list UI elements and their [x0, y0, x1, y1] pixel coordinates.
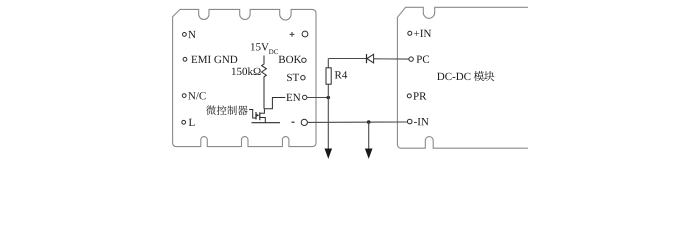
arrow down (R4 branch) [325, 149, 333, 159]
label 15VDC supply [251, 43, 278, 54]
wire R4 vertical branch [327, 59, 329, 149]
wire EN to R4 branch [307, 97, 328, 99]
resistor R4 [326, 68, 347, 84]
pin -IN [407, 118, 428, 125]
transistor Q1 N-MOSFET [256, 109, 265, 123]
junction dot on minus rail [367, 120, 371, 124]
pin N [183, 31, 196, 38]
wire gate lead from microcontroller [249, 110, 256, 119]
pin ST [287, 74, 305, 81]
pin EMI GND [183, 56, 237, 63]
junction dot at EN/R4 [327, 96, 331, 100]
pin +IN [408, 30, 431, 37]
pin + (output plus) [290, 31, 308, 37]
pin L [182, 119, 195, 126]
resistor 150kΩ (zigzag) [232, 56, 266, 109]
pin N/C [182, 92, 205, 99]
diode D1 (cathode left) [367, 54, 374, 63]
pin PC [409, 56, 429, 63]
wire minus rail from - to -IN [307, 121, 407, 123]
wire diode to PC [374, 58, 409, 60]
SSR module outline [173, 9, 316, 146]
pin EN [286, 94, 307, 101]
label DC-DC module [437, 73, 470, 80]
wire drain node to EN [264, 98, 285, 109]
wire source rail [252, 122, 281, 124]
DC-DC module outline [397, 7, 528, 148]
wire R4 top to diode [328, 58, 366, 60]
microcontroller label [206, 105, 248, 115]
pin BOK [279, 56, 306, 63]
arrow down (minus branch) [365, 149, 373, 159]
wire minus branch down [368, 122, 370, 149]
pin - (output minus) [292, 119, 308, 125]
pin PR [407, 92, 426, 99]
